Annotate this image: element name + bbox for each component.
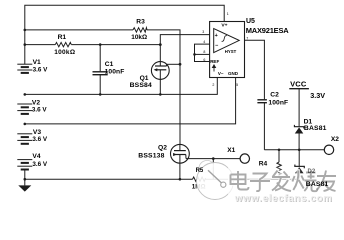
junction R4 top on output node line [278, 149, 281, 152]
wire D2 stub from node line down [298, 150, 300, 166]
wire R4 bottom stub [278, 175, 280, 180]
svg-text:www.elecfans.com: www.elecfans.com [234, 193, 333, 204]
wire bus middle pin [195, 53, 210, 55]
svg-text:U5: U5 [246, 18, 255, 25]
svg-text:100nF: 100nF [268, 100, 288, 107]
svg-text:REF: REF [210, 59, 219, 64]
op-amp U5 MAX921ESA box [210, 22, 245, 78]
svg-text:10kΩ: 10kΩ [131, 34, 147, 41]
wire V2/V3 tap line to U5 GND pin stub [25, 78, 236, 124]
battery V4 3.6V [17, 160, 32, 170]
capacitor C1 100nF [93, 45, 108, 95]
watermark chinese characters (halo) [231, 171, 337, 192]
svg-text:R5: R5 [196, 168, 204, 174]
resistor R4 zigzag redrawn over haze [277, 162, 281, 173]
node A junction R1/IN+/Q1 [159, 43, 162, 46]
junction R5 stub on X1 wire [212, 157, 215, 160]
op-amp triangle [214, 29, 240, 53]
battery V2 3.6V [17, 104, 32, 114]
junction C1 bottom on V1/V2 line [99, 93, 102, 96]
wire R1 line battery+ to node [25, 44, 56, 46]
junction IN-/REF bus middle pin [193, 53, 196, 56]
watermark chinese characters [231, 171, 337, 192]
svg-text:HYST: HYST [225, 49, 237, 54]
junction C1 top on R1 line [99, 43, 102, 46]
svg-text:1: 1 [227, 12, 229, 16]
svg-text:V1: V1 [33, 59, 41, 66]
junction V2/V3 tap [24, 123, 27, 126]
resistor R3 10k zigzag [133, 28, 147, 32]
resistor R4 vertical zigzag [277, 162, 281, 175]
svg-text:V4: V4 [32, 153, 40, 160]
svg-text:BAS81: BAS81 [304, 125, 327, 132]
wire top rail from battery+ to U5 V+ stub [25, 5, 224, 64]
junction Q1 source on V1/V2 line [159, 93, 162, 96]
svg-text:V+: V+ [221, 23, 227, 29]
svg-text:X2: X2 [331, 136, 339, 143]
junction D1/D2 on output node line [298, 149, 301, 152]
wire ground rail right section under watermark [206, 178, 300, 180]
svg-text:C2: C2 [270, 91, 279, 98]
svg-text:4: 4 [203, 40, 205, 44]
watermark white haze band [228, 167, 344, 205]
wire node A down to Q1 drain [159, 45, 161, 62]
internal reference arrow [213, 65, 215, 72]
wire Q2 drain to X1 [186, 158, 240, 160]
VCC symbol [289, 88, 309, 90]
svg-text:Q1: Q1 [140, 75, 149, 82]
wire R3 line battery+ to corner [25, 29, 133, 31]
wire R5 stub up to X1 line [212, 159, 214, 180]
svg-text:7: 7 [246, 36, 248, 40]
svg-text:8: 8 [203, 50, 205, 54]
svg-text:5: 5 [236, 83, 238, 87]
svg-text:X1: X1 [227, 147, 235, 154]
diode D2 BAS81 [295, 165, 304, 169]
wire IN+ line node A up and right to U5 pin 3 [160, 35, 209, 45]
wire IN- / REF tie bus [195, 44, 210, 61]
resistor R1 100k zigzag [55, 42, 71, 46]
wire R1 right to junction node A [71, 44, 160, 46]
junction battery+ to R1 line [24, 43, 27, 46]
svg-text:100kΩ: 100kΩ [54, 49, 75, 56]
svg-text:BSS138: BSS138 [138, 152, 164, 159]
wire C2 bottom down to output node line [263, 103, 265, 150]
junction Q2 source on ground rail [179, 178, 182, 181]
svg-text:BSS84: BSS84 [130, 82, 152, 89]
junction battery- to ground rail [24, 178, 27, 181]
junction V1/V2 tap [24, 93, 27, 96]
svg-text:3.6 V: 3.6 V [33, 67, 49, 74]
svg-text:+: + [215, 33, 218, 39]
svg-text:V2: V2 [32, 99, 40, 106]
wire Q1 source down to V1/V2 tap line [159, 79, 161, 94]
ground symbol [18, 185, 31, 191]
connector X1 [240, 154, 249, 163]
wire U5 output right and down to C2 [245, 40, 265, 99]
battery V3 3.6V [17, 134, 32, 144]
svg-text:3: 3 [202, 30, 204, 34]
svg-text:V−: V− [218, 71, 224, 76]
diode D1 BAS81 [294, 125, 303, 129]
svg-text:100nF: 100nF [105, 69, 125, 76]
svg-text:C1: C1 [105, 61, 114, 68]
svg-text:R4: R4 [259, 161, 268, 168]
svg-text:R3: R3 [136, 19, 145, 26]
hysteresis glyph [222, 36, 227, 42]
wire R3 right to corner down to Q2 drain/gate node [147, 30, 180, 145]
wire D1 cathode down to output node line [298, 133, 300, 149]
diode D2 symbol redrawn over haze [295, 165, 304, 178]
svg-text:−: − [215, 43, 218, 49]
wire VCC down to D1 anode [298, 89, 300, 127]
battery V1 3.6V [17, 64, 32, 73]
wire ground rail from battery to R5 [24, 170, 26, 186]
transistor Q1 BSS84 [151, 62, 169, 80]
wire V1/V2 tap line to U5 V- pin stub [25, 78, 218, 95]
svg-text:3.6 V: 3.6 V [32, 136, 48, 143]
svg-text:VCC: VCC [290, 79, 307, 88]
wire Q1 gate to R3 vertical [167, 63, 180, 65]
wire output node line to X2 [264, 149, 324, 151]
svg-text:R1: R1 [58, 34, 67, 41]
watermark logo white circle [197, 158, 234, 200]
transistor Q2 BSS138 [171, 144, 190, 163]
svg-text:6: 6 [203, 58, 205, 62]
connector X2 [324, 145, 333, 154]
svg-text:GND: GND [228, 71, 239, 76]
watermark www.elecfans.com [234, 193, 333, 205]
svg-text:BAS81: BAS81 [306, 181, 329, 188]
svg-text:3.6 V: 3.6 V [32, 161, 48, 168]
svg-text:3.6 V: 3.6 V [32, 107, 48, 114]
wire Q2 source stub to ground rail [179, 163, 181, 179]
svg-text:MAX921ESA: MAX921ESA [246, 26, 290, 35]
capacitor C2 100nF [257, 100, 267, 103]
svg-text:3.3V: 3.3V [310, 91, 325, 100]
svg-text:D2: D2 [308, 169, 316, 175]
wire R4 top stub [278, 150, 280, 162]
svg-text:Q2: Q2 [158, 144, 167, 151]
junction battery+ to R3 line [24, 29, 27, 32]
svg-text:2: 2 [212, 83, 214, 87]
junction Q1 gate on R3 vertical [179, 63, 182, 66]
wire D2 bottom to ground rail [298, 173, 300, 179]
resistor R5 horizontal zigzag [193, 177, 206, 181]
